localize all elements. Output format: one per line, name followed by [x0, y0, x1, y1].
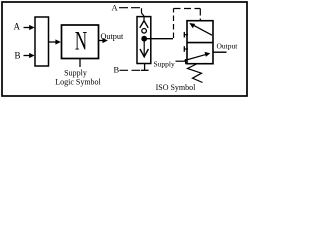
valve blocked port bottom [184, 48, 188, 50]
svg-text:A: A [14, 21, 21, 31]
wire: input B arrow [24, 55, 31, 57]
junction dot [141, 36, 147, 42]
pilot wire A dashed [119, 8, 144, 18]
svg-text:Supply: Supply [64, 68, 87, 77]
wire: supply line to valve [176, 60, 186, 62]
svg-text:Supply: Supply [154, 59, 176, 68]
shuttle bottom seat caret (down) [143, 39, 145, 57]
shuttle bottom stub and bar [144, 64, 146, 71]
shuttle top seat caret (up) [143, 17, 145, 21]
pilot wire B dashed [120, 69, 141, 71]
wire: output arrow (left) [99, 40, 104, 42]
valve blocked port top [184, 34, 188, 36]
svg-text:A: A [112, 2, 119, 12]
svg-text:Output: Output [217, 42, 239, 51]
svg-text:Output: Output [101, 32, 124, 41]
logic element U1 N box [62, 25, 99, 59]
svg-text:B: B [114, 65, 120, 75]
svg-text:ISO Symbol: ISO Symbol [156, 83, 197, 92]
wire: OR box to N box arrow [49, 41, 57, 43]
svg-text:N: N [75, 26, 87, 56]
valve top cell flow arrow [192, 24, 213, 35]
wire: input A arrow [24, 27, 31, 29]
shuttle valve body [137, 17, 151, 64]
shuttle ball [142, 29, 147, 34]
OR element box (left) [35, 17, 49, 66]
svg-text:Logic Symbol: Logic Symbol [55, 78, 101, 87]
pilot wire dashed up-over-down to valve top [174, 9, 201, 39]
valve middle line [187, 42, 213, 44]
wire: shuttle output to pilot [147, 38, 174, 40]
wire: supply drop (left) [79, 59, 81, 68]
svg-text:B: B [15, 50, 21, 60]
wire: output (right) [213, 51, 227, 53]
valve spring [188, 64, 203, 83]
valve bottom cell flow arrow [185, 54, 207, 60]
3/2 valve body [187, 21, 213, 64]
